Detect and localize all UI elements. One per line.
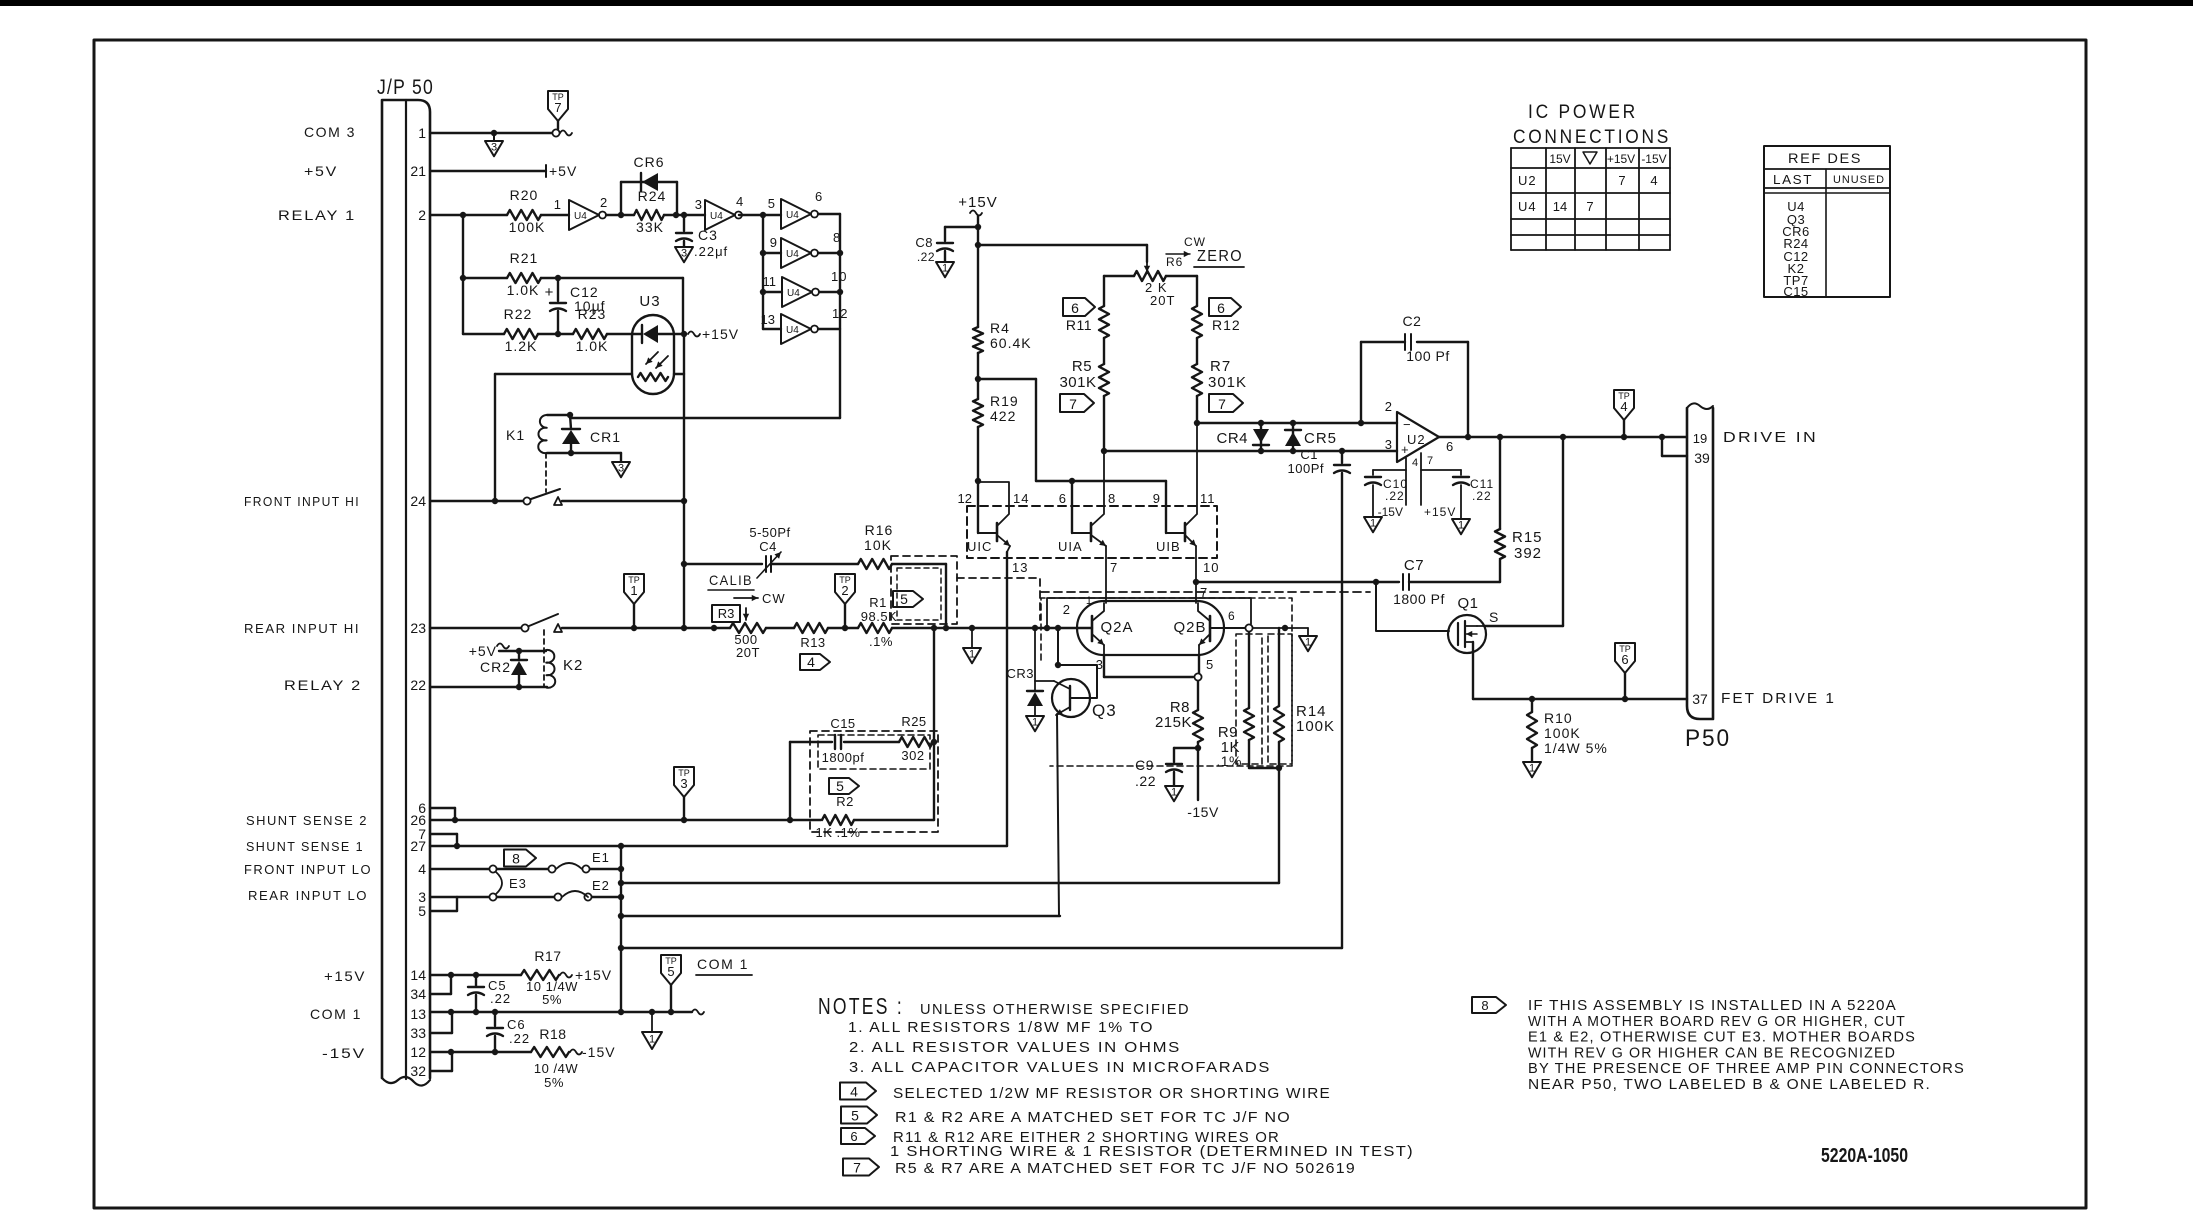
- svg-text:U4: U4: [786, 325, 799, 336]
- svg-text:E2: E2: [592, 878, 610, 893]
- svg-text:215K: 215K: [1155, 714, 1192, 731]
- svg-text:14: 14: [410, 967, 426, 983]
- svg-text:C8: C8: [915, 235, 933, 250]
- svg-text:R1 & R2 ARE A MATCHED SET: R1 & R2 ARE A MATCHED SET FOR TC J/F NO: [895, 1109, 1291, 1126]
- svg-text:R1: R1: [869, 595, 887, 610]
- svg-text:R6: R6: [1166, 255, 1183, 269]
- svg-text:7: 7: [853, 1159, 861, 1175]
- svg-text:R20: R20: [510, 187, 539, 203]
- svg-text:FRONT INPUT HI: FRONT INPUT HI: [244, 494, 360, 509]
- svg-text:R7: R7: [1210, 358, 1231, 375]
- svg-text:C9: C9: [1135, 757, 1154, 773]
- svg-text:R10: R10: [1544, 710, 1573, 726]
- svg-text:U4: U4: [574, 211, 587, 222]
- svg-text:.22: .22: [490, 991, 511, 1006]
- svg-text:1800pf: 1800pf: [822, 750, 865, 765]
- svg-text:IF THIS ASSEMBLY IS INSTALLED: IF THIS ASSEMBLY IS INSTALLED IN A 5220A: [1528, 997, 1897, 1014]
- svg-text:1: 1: [630, 583, 637, 598]
- svg-text:.22: .22: [1385, 489, 1405, 503]
- svg-text:100K: 100K: [1544, 725, 1581, 741]
- svg-text:FRONT INPUT LO: FRONT INPUT LO: [244, 862, 372, 877]
- svg-text:15V: 15V: [1549, 152, 1570, 166]
- svg-text:-15V: -15V: [1641, 152, 1666, 166]
- svg-text:R2: R2: [836, 794, 854, 809]
- svg-text:Q1: Q1: [1457, 595, 1478, 612]
- svg-text:CR2: CR2: [480, 659, 511, 675]
- svg-text:+15V: +15V: [1607, 152, 1635, 166]
- svg-text:J/P 50: J/P 50: [377, 76, 434, 99]
- svg-text:COM 1: COM 1: [310, 1006, 362, 1022]
- svg-text:4: 4: [418, 861, 426, 877]
- svg-text:+5V: +5V: [469, 643, 497, 659]
- svg-text:33: 33: [410, 1025, 426, 1041]
- svg-text:P50: P50: [1685, 725, 1731, 752]
- svg-text:5220A-1050: 5220A-1050: [1821, 1145, 1908, 1167]
- svg-text:27: 27: [410, 838, 426, 854]
- svg-text:13: 13: [761, 312, 775, 327]
- svg-text:33K: 33K: [636, 219, 664, 235]
- svg-text:R21: R21: [510, 250, 539, 266]
- svg-text:C15: C15: [830, 716, 855, 731]
- svg-text:5: 5: [768, 196, 775, 211]
- svg-text:19: 19: [1693, 431, 1707, 446]
- svg-text:U2: U2: [1518, 173, 1537, 188]
- svg-text:7: 7: [1427, 455, 1434, 467]
- svg-text:CR4: CR4: [1216, 430, 1248, 447]
- svg-text:3. ALL CAPACITOR VALUES IN: 3. ALL CAPACITOR VALUES IN MICROFARADS: [849, 1059, 1271, 1076]
- svg-text:301K: 301K: [1059, 374, 1096, 391]
- svg-text:+15V: +15V: [1424, 505, 1456, 519]
- svg-text:4: 4: [1412, 457, 1419, 469]
- svg-text:32: 32: [410, 1063, 426, 1079]
- svg-text:R13: R13: [800, 635, 825, 650]
- svg-text:1: 1: [1032, 716, 1038, 728]
- svg-text:U4: U4: [787, 288, 800, 299]
- svg-text:Q3: Q3: [1092, 701, 1117, 720]
- svg-text:E3: E3: [509, 876, 527, 891]
- svg-text:CONNECTIONS: CONNECTIONS: [1513, 127, 1671, 148]
- svg-text:CR3: CR3: [1006, 666, 1034, 681]
- svg-text:U4: U4: [710, 211, 723, 222]
- svg-text:302: 302: [901, 748, 924, 763]
- svg-text:1: 1: [1305, 636, 1311, 648]
- svg-text:R22: R22: [504, 306, 533, 322]
- svg-text:CR5: CR5: [1304, 430, 1337, 447]
- svg-text:3: 3: [1385, 437, 1392, 452]
- svg-text:RELAY 2: RELAY 2: [284, 677, 362, 693]
- svg-text:WITH REV G OR HIGHER CAN BE RE: WITH REV G OR HIGHER CAN BE RECOGNIZED: [1528, 1044, 1896, 1061]
- svg-text:U3: U3: [639, 293, 660, 310]
- svg-text:+5V: +5V: [549, 163, 577, 179]
- svg-text:UIA: UIA: [1058, 539, 1083, 554]
- svg-text:1.0K: 1.0K: [507, 282, 540, 298]
- svg-text:7: 7: [1586, 199, 1593, 214]
- svg-text:U4: U4: [786, 249, 799, 260]
- svg-text:4: 4: [807, 654, 815, 670]
- svg-text:422: 422: [990, 408, 1016, 424]
- svg-text:5%: 5%: [544, 1075, 564, 1090]
- svg-text:K1: K1: [506, 427, 525, 443]
- svg-text:.22: .22: [917, 250, 935, 264]
- svg-text:R25: R25: [901, 714, 926, 729]
- svg-text:21: 21: [410, 163, 426, 179]
- svg-text:+15V: +15V: [702, 326, 739, 342]
- svg-text:100K: 100K: [1296, 718, 1335, 735]
- svg-text:RELAY 1: RELAY 1: [278, 207, 356, 223]
- svg-text:NOTES :: NOTES :: [818, 993, 904, 1019]
- svg-text:Q2A: Q2A: [1100, 619, 1133, 636]
- svg-text:S: S: [1489, 609, 1499, 625]
- svg-text:UIB: UIB: [1156, 539, 1181, 554]
- svg-text:1. ALL RESISTORS 1/8W MF: 1. ALL RESISTORS 1/8W MF 1% TO: [848, 1019, 1154, 1036]
- svg-text:R12: R12: [1212, 317, 1241, 333]
- svg-text:392: 392: [1514, 545, 1542, 562]
- svg-text:REAR INPUT LO: REAR INPUT LO: [248, 888, 368, 903]
- svg-text:3: 3: [680, 776, 687, 791]
- svg-text:100K: 100K: [509, 219, 546, 235]
- svg-text:9: 9: [1153, 491, 1160, 506]
- svg-text:K2: K2: [563, 657, 583, 674]
- svg-text:.22: .22: [1135, 773, 1156, 789]
- svg-text:100Pf: 100Pf: [1288, 461, 1324, 476]
- svg-text:CALIB: CALIB: [709, 572, 753, 588]
- svg-text:1: 1: [1171, 786, 1177, 798]
- svg-text:1: 1: [649, 1034, 655, 1046]
- svg-text:WITH A MOTHER BOARD REV G OR H: WITH A MOTHER BOARD REV G OR HIGHER, CUT: [1528, 1013, 1906, 1030]
- svg-text:C15: C15: [1783, 284, 1808, 299]
- svg-text:22: 22: [410, 677, 426, 693]
- svg-text:6: 6: [850, 1129, 857, 1144]
- svg-text:R18: R18: [539, 1026, 566, 1042]
- svg-text:CR1: CR1: [590, 429, 621, 445]
- svg-text:4: 4: [850, 1083, 858, 1099]
- svg-text:4: 4: [1650, 173, 1657, 188]
- svg-text:60.4K: 60.4K: [990, 335, 1032, 351]
- svg-text:6: 6: [1621, 652, 1628, 667]
- svg-text:24: 24: [410, 493, 426, 509]
- svg-text:3: 3: [491, 141, 497, 153]
- svg-text:7: 7: [1218, 396, 1226, 412]
- svg-text:+15V: +15V: [324, 968, 366, 984]
- svg-text:301K: 301K: [1208, 374, 1247, 391]
- svg-text:UIC: UIC: [967, 539, 992, 554]
- svg-text:C2: C2: [1403, 313, 1422, 329]
- svg-text:7: 7: [1110, 560, 1118, 575]
- svg-text:E1: E1: [592, 850, 610, 865]
- svg-text:.22μf: .22μf: [694, 244, 728, 259]
- svg-text:1: 1: [418, 125, 426, 141]
- svg-text:8: 8: [1108, 491, 1116, 506]
- svg-text:COM 3: COM 3: [304, 124, 356, 140]
- svg-text:3: 3: [681, 247, 687, 259]
- svg-text:R16: R16: [865, 522, 894, 538]
- svg-text:ZERO: ZERO: [1197, 248, 1243, 265]
- svg-text:1: 1: [969, 648, 975, 660]
- svg-text:1/4W 5%: 1/4W 5%: [1544, 740, 1608, 756]
- svg-text:BY THE PRESENCE OF THREE AMP P: BY THE PRESENCE OF THREE AMP PIN CONNECT…: [1528, 1060, 1965, 1077]
- svg-text:6: 6: [1059, 491, 1066, 506]
- svg-text:SELECTED 1/2W MF RESISTOR OR: SELECTED 1/2W MF RESISTOR OR SHORTING WI…: [893, 1085, 1331, 1102]
- svg-text:.1%: .1%: [869, 634, 893, 649]
- svg-text:+15V: +15V: [575, 967, 612, 983]
- svg-text:1.2K: 1.2K: [505, 338, 538, 354]
- svg-text:6: 6: [1446, 439, 1454, 454]
- svg-text:11: 11: [1200, 491, 1216, 506]
- svg-text:10: 10: [1203, 560, 1219, 575]
- svg-text:UNLESS OTHERWISE SPECIFIED: UNLESS OTHERWISE SPECIFIED: [920, 1001, 1190, 1018]
- svg-text:REF DES: REF DES: [1788, 150, 1862, 166]
- svg-text:CW: CW: [1184, 235, 1206, 249]
- svg-text:10 /4W: 10 /4W: [534, 1061, 578, 1076]
- svg-text:5: 5: [667, 964, 674, 979]
- svg-text:2: 2: [841, 583, 848, 598]
- svg-text:U2: U2: [1407, 432, 1426, 447]
- svg-text:-15V: -15V: [582, 1044, 616, 1060]
- svg-text:U4: U4: [1518, 199, 1537, 214]
- svg-text:UNUSED: UNUSED: [1833, 174, 1885, 186]
- svg-text:CW: CW: [762, 591, 786, 606]
- svg-text:R15: R15: [1512, 529, 1543, 546]
- svg-text:+5V: +5V: [304, 163, 338, 179]
- svg-text:-15V: -15V: [1187, 804, 1219, 820]
- svg-text:LAST: LAST: [1773, 172, 1813, 187]
- svg-text:U4: U4: [786, 210, 799, 221]
- svg-text:3: 3: [618, 462, 624, 474]
- svg-text:.22: .22: [1472, 489, 1492, 503]
- svg-text:C4: C4: [759, 539, 777, 554]
- svg-text:9: 9: [770, 235, 777, 250]
- svg-text:R23: R23: [578, 306, 607, 322]
- svg-text:5: 5: [1206, 657, 1214, 672]
- svg-text:6: 6: [1071, 300, 1079, 316]
- svg-text:5: 5: [851, 1107, 859, 1123]
- svg-text:1: 1: [1370, 517, 1376, 529]
- svg-text:FET DRIVE 1: FET DRIVE 1: [1721, 690, 1836, 707]
- svg-text:1: 1: [554, 197, 561, 212]
- svg-text:11: 11: [763, 274, 777, 289]
- svg-text:23: 23: [410, 620, 426, 636]
- svg-text:C7: C7: [1404, 557, 1424, 574]
- svg-text:R3: R3: [718, 606, 735, 621]
- svg-text:5: 5: [900, 591, 908, 607]
- svg-text:100 Pf: 100 Pf: [1406, 348, 1449, 364]
- svg-text:.22: .22: [509, 1031, 530, 1046]
- svg-text:CR6: CR6: [633, 154, 664, 170]
- svg-text:2: 2: [1063, 602, 1070, 617]
- svg-text:+: +: [545, 284, 554, 301]
- svg-text:SHUNT SENSE 1: SHUNT SENSE 1: [246, 839, 364, 854]
- svg-text:IC POWER: IC POWER: [1528, 102, 1638, 123]
- svg-text:1: 1: [1529, 762, 1535, 774]
- svg-text:−: −: [1403, 417, 1412, 432]
- svg-text:1: 1: [942, 262, 948, 274]
- svg-text:R11: R11: [1066, 317, 1092, 333]
- svg-text:14: 14: [1553, 199, 1567, 214]
- svg-text:5: 5: [418, 903, 426, 919]
- svg-text:1 SHORTING WIRE & 1 RESIST: 1 SHORTING WIRE & 1 RESISTOR (DETERMINED…: [890, 1143, 1414, 1160]
- svg-text:COM 1: COM 1: [697, 956, 749, 972]
- svg-text:2. ALL RESISTOR VALUES IN: 2. ALL RESISTOR VALUES IN OHMS: [849, 1039, 1181, 1056]
- svg-text:2: 2: [1385, 399, 1392, 414]
- svg-text:1: 1: [1458, 519, 1464, 531]
- svg-text:10K: 10K: [864, 537, 892, 553]
- svg-text:-15V: -15V: [322, 1045, 366, 1061]
- svg-text:2: 2: [600, 195, 608, 210]
- svg-text:R17: R17: [534, 948, 561, 964]
- svg-text:20T: 20T: [736, 645, 760, 660]
- svg-text:7: 7: [1618, 173, 1625, 188]
- svg-text:E1 & E2, OTHERWISE CUT E3. MOT: E1 & E2, OTHERWISE CUT E3. MOTHER BOARDS: [1528, 1029, 1916, 1046]
- svg-text:SHUNT SENSE 2: SHUNT SENSE 2: [246, 813, 368, 828]
- svg-text:5: 5: [836, 778, 844, 794]
- svg-text:14: 14: [1013, 491, 1029, 506]
- svg-text:Q2B: Q2B: [1173, 619, 1206, 636]
- svg-text:+15V: +15V: [958, 194, 997, 211]
- svg-text:3: 3: [695, 197, 702, 212]
- svg-text:R4: R4: [990, 320, 1010, 336]
- svg-text:2: 2: [418, 207, 426, 223]
- svg-text:7: 7: [1069, 396, 1077, 412]
- svg-text:1: 1: [1086, 595, 1092, 607]
- svg-text:8: 8: [1481, 998, 1488, 1013]
- svg-text:R5: R5: [1072, 358, 1092, 375]
- svg-text:13: 13: [1012, 560, 1028, 575]
- svg-text:4: 4: [736, 194, 744, 209]
- svg-text:8: 8: [512, 850, 520, 866]
- svg-text:39: 39: [1694, 450, 1710, 466]
- svg-text:37: 37: [1692, 691, 1708, 707]
- svg-text:REAR INPUT HI: REAR INPUT HI: [244, 621, 360, 636]
- svg-text:12: 12: [410, 1044, 426, 1060]
- svg-text:1800 Pf: 1800 Pf: [1393, 591, 1445, 607]
- svg-text:NEAR P50, TWO LABELED B & ONE: NEAR P50, TWO LABELED B & ONE LABELED R.: [1528, 1076, 1931, 1093]
- svg-text:DRIVE IN: DRIVE IN: [1723, 429, 1818, 446]
- svg-text:6: 6: [815, 189, 823, 204]
- svg-text:R19: R19: [990, 393, 1019, 409]
- svg-text:4: 4: [1620, 399, 1627, 414]
- svg-text:34: 34: [410, 986, 426, 1002]
- svg-text:C6: C6: [507, 1017, 526, 1032]
- svg-text:R5 & R7 ARE A MATCHED SET: R5 & R7 ARE A MATCHED SET FOR TC J/F NO …: [895, 1160, 1356, 1177]
- svg-text:7: 7: [554, 100, 561, 115]
- svg-text:20T: 20T: [1150, 293, 1175, 308]
- svg-text:12: 12: [958, 491, 972, 506]
- svg-text:R24: R24: [638, 188, 667, 204]
- svg-text:5-50Pf: 5-50Pf: [749, 525, 790, 540]
- svg-text:6: 6: [1228, 609, 1236, 623]
- svg-text:6: 6: [1217, 300, 1225, 316]
- svg-text:5%: 5%: [542, 992, 562, 1007]
- svg-text:C1: C1: [1300, 447, 1318, 462]
- svg-text:13: 13: [410, 1006, 426, 1022]
- svg-text:1.0K: 1.0K: [576, 338, 609, 354]
